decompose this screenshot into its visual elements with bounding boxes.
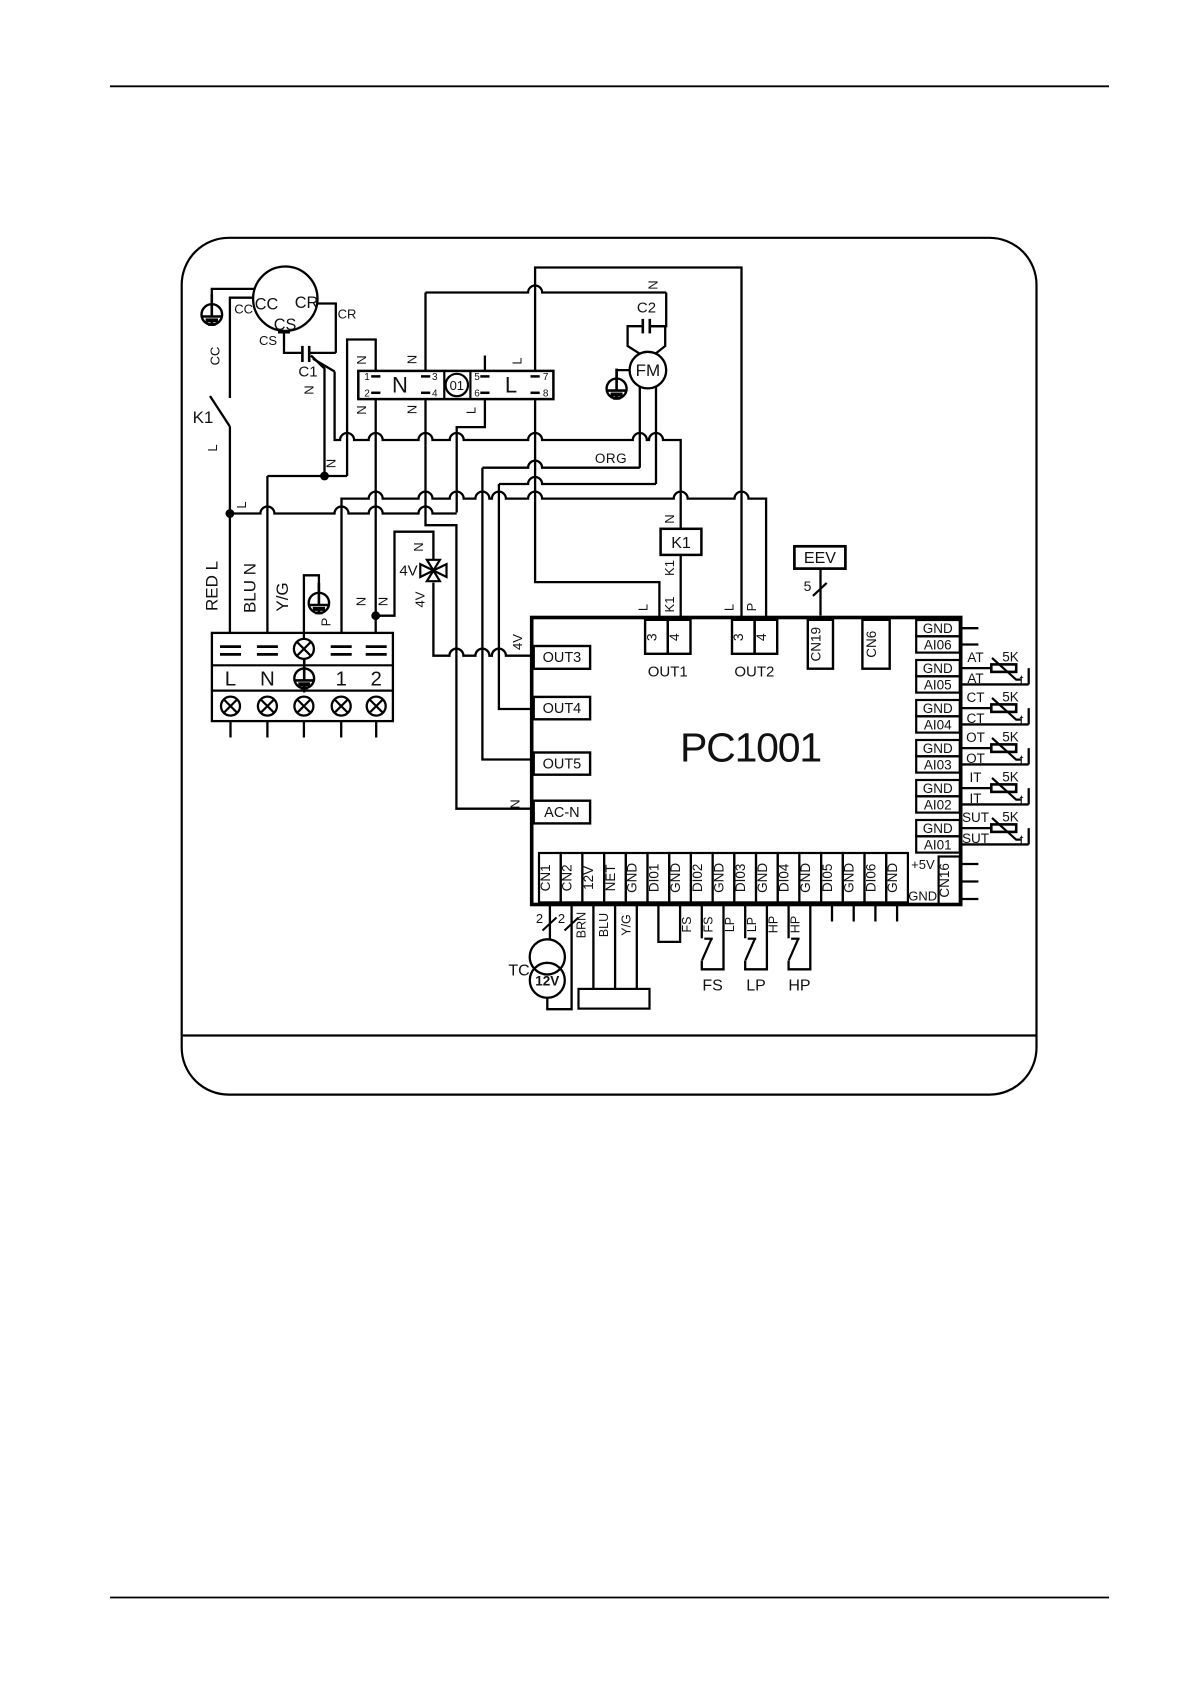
DI stub 4 <box>896 906 898 922</box>
svg-text:5: 5 <box>804 578 812 594</box>
svg-text:4V: 4V <box>510 634 525 650</box>
svg-text:OUT2: OUT2 <box>734 664 774 681</box>
svg-text:01: 01 <box>450 378 464 393</box>
ground symbol P (protective earth) <box>309 583 329 613</box>
svg-text:GND: GND <box>923 621 953 636</box>
svg-text:PC1001: PC1001 <box>680 725 821 771</box>
svg-text:2: 2 <box>364 389 370 400</box>
svg-text:LP: LP <box>723 917 737 932</box>
connector OUT4 box <box>534 697 590 719</box>
svg-text:N: N <box>354 597 369 606</box>
strip pin 6 tick and number <box>480 392 489 395</box>
svg-text:HP: HP <box>788 978 810 995</box>
svg-text:L: L <box>721 604 736 611</box>
svg-text:OUT3: OUT3 <box>543 650 582 666</box>
svg-text:BLU N: BLU N <box>241 563 260 613</box>
svg-text:L: L <box>636 604 651 611</box>
svg-text:1: 1 <box>364 372 370 383</box>
svg-text:N: N <box>354 355 369 364</box>
svg-text:3: 3 <box>432 372 438 383</box>
CN2 2-wire slash <box>565 918 579 931</box>
svg-text:IT: IT <box>970 791 982 806</box>
svg-text:HP: HP <box>767 916 781 933</box>
svg-text:N: N <box>508 799 523 808</box>
connector DI02 box (bottom row 8) <box>691 853 713 902</box>
svg-text:5K: 5K <box>1002 730 1019 745</box>
svg-text:K1: K1 <box>662 560 677 576</box>
svg-text:t: t <box>1020 713 1024 728</box>
svg-text:3: 3 <box>643 633 659 641</box>
svg-text:L: L <box>225 668 236 691</box>
wire pin1 loop to N net <box>347 340 376 477</box>
strip pin 3 tick and number <box>421 375 430 378</box>
wire jog to 4V valve <box>376 532 434 616</box>
svg-text:AI04: AI04 <box>924 717 952 732</box>
svg-text:8: 8 <box>543 389 549 400</box>
svg-text:OT: OT <box>966 730 985 745</box>
svg-text:P: P <box>319 618 334 627</box>
svg-text:1: 1 <box>335 668 346 691</box>
EEV box <box>794 546 845 568</box>
ground symbol G1 (compressor) <box>202 294 223 325</box>
wire L node to terminal L <box>229 514 231 633</box>
svg-text:AC-N: AC-N <box>544 805 579 821</box>
strip pin 8 tick and number <box>531 392 540 395</box>
DI01 jumper loop <box>658 906 680 942</box>
terminal block stub 2 <box>266 721 268 737</box>
svg-text:L: L <box>205 444 220 451</box>
svg-text:CS: CS <box>259 333 277 348</box>
wire CN2 to transformer return <box>547 906 571 1010</box>
junction dot L node <box>226 509 235 518</box>
terminal block screw 4 <box>332 697 351 716</box>
svg-text:4: 4 <box>753 633 769 641</box>
wire 12V (BRN) <box>592 906 594 989</box>
transformer TC secondary <box>530 963 565 998</box>
terminal GND box (pair 1) <box>916 620 960 636</box>
svg-text:EEV: EEV <box>804 550 836 567</box>
L bus from K1 <box>230 507 457 514</box>
page bottom rule <box>110 1597 1109 1599</box>
terminal GND box (pair 3) <box>916 700 960 716</box>
4-way valve 4V <box>420 560 446 581</box>
svg-text:AI02: AI02 <box>924 797 952 812</box>
terminal block fuse marks col2 <box>257 645 278 648</box>
N bus (horizontal with hops) to K1 coil <box>335 372 681 529</box>
terminal GND box (pair 6) <box>916 820 960 836</box>
svg-text:GND: GND <box>923 701 953 716</box>
DI stub 1 <box>831 906 833 922</box>
svg-text:AT: AT <box>967 650 983 665</box>
svg-text:N: N <box>405 355 420 364</box>
svg-text:DI01: DI01 <box>646 864 661 893</box>
connector 12V box (bottom row 3) <box>582 853 604 902</box>
svg-text:CC: CC <box>234 302 253 317</box>
wire FM right lead <box>655 386 657 485</box>
diagram frame (rounded rect) <box>182 238 1037 1095</box>
run FM right lead to OUT4 <box>499 477 656 709</box>
terminal AI01 box <box>916 836 960 852</box>
svg-text:AI01: AI01 <box>924 837 952 852</box>
svg-text:4V: 4V <box>399 563 417 580</box>
svg-text:K1: K1 <box>671 535 691 552</box>
svg-text:DI05: DI05 <box>820 864 835 893</box>
svg-text:5K: 5K <box>1002 650 1019 665</box>
svg-text:2: 2 <box>536 911 543 926</box>
svg-text:FS: FS <box>702 978 722 995</box>
svg-text:4V: 4V <box>413 591 428 607</box>
terminal block body <box>212 633 393 721</box>
CN16 stub 1 <box>962 863 979 865</box>
svg-text:BRN: BRN <box>575 912 589 938</box>
svg-text:DI03: DI03 <box>733 864 748 893</box>
connector GND box (bottom row 15) <box>843 853 865 902</box>
svg-text:AI06: AI06 <box>924 637 952 652</box>
svg-text:12V: 12V <box>535 973 559 988</box>
thermistor SUT (5K NTC) <box>962 818 1029 845</box>
svg-text:4: 4 <box>432 389 438 400</box>
connector OUT3 box <box>534 646 590 669</box>
wire Y/G to PE <box>304 575 319 633</box>
wire pin4 to AC-N <box>426 399 532 809</box>
svg-text:2: 2 <box>558 911 565 926</box>
wire pin7 to OUT2-3 (top run) <box>535 268 741 617</box>
svg-text:OUT1: OUT1 <box>648 664 688 681</box>
svg-text:N: N <box>376 597 391 606</box>
svg-text:GND: GND <box>842 863 857 893</box>
connector GND box (bottom row 9) <box>713 853 735 902</box>
cable sheath bar <box>579 989 650 1009</box>
svg-text:5K: 5K <box>1002 690 1019 705</box>
terminal block PE symbol <box>294 659 314 689</box>
svg-text:GND: GND <box>798 863 813 893</box>
svg-text:N: N <box>392 373 408 398</box>
strip pin 5 tick and number <box>480 375 489 378</box>
terminal block stub 3 <box>303 721 305 737</box>
high pressure switch HP <box>789 906 811 970</box>
svg-text:AT: AT <box>967 671 983 686</box>
compressor CS terminal tick <box>278 331 290 333</box>
svg-text:GND: GND <box>923 741 953 756</box>
svg-text:N: N <box>662 514 677 523</box>
terminal strip divider right <box>469 371 471 399</box>
thermistor CT (5K NTC) <box>962 698 1029 725</box>
connector DI03 box (bottom row 10) <box>734 853 756 902</box>
wire pin3 up to C2 net <box>426 286 667 293</box>
wire CC terminal down-left <box>230 298 253 398</box>
svg-text:2: 2 <box>370 668 381 691</box>
svg-text:CN6: CN6 <box>864 631 879 658</box>
connector DI05 box (bottom row 14) <box>821 853 843 902</box>
ground symbol G2 (fan motor) <box>607 369 627 399</box>
terminal block row divider 2 <box>212 689 393 691</box>
frame footer line <box>183 1034 1036 1036</box>
low pressure switch LP <box>745 906 767 970</box>
svg-text:GND: GND <box>625 863 640 893</box>
svg-text:DI06: DI06 <box>863 864 878 893</box>
svg-text:ORG: ORG <box>595 451 627 466</box>
connector OUT1 pin4 box <box>668 620 691 654</box>
DI stub 3 <box>874 906 876 922</box>
svg-text:N: N <box>302 385 317 394</box>
svg-text:L: L <box>234 501 249 508</box>
wire NET (BLU) <box>614 906 616 989</box>
terminal strip body <box>358 371 553 399</box>
wire EEV to CN19 <box>819 569 821 616</box>
svg-text:N: N <box>354 405 369 414</box>
svg-text:5: 5 <box>474 372 480 383</box>
relay coil K1 box <box>661 529 702 555</box>
junction dot terminal 2 node <box>371 611 380 620</box>
wire GND (Y/G) <box>636 906 638 989</box>
svg-text:GND: GND <box>885 863 900 893</box>
svg-text:GND: GND <box>923 661 953 676</box>
compressor motor M1 (CC/CR/CS) <box>253 267 317 331</box>
svg-text:CN1: CN1 <box>538 864 553 891</box>
ORG run FM to OUT5 <box>482 461 639 760</box>
svg-text:CN2: CN2 <box>560 864 575 891</box>
connector OUT1 pin3 box <box>645 620 668 654</box>
svg-text:12V: 12V <box>581 866 596 890</box>
wire CN1 to transformer <box>549 906 551 940</box>
svg-text:L: L <box>464 407 479 414</box>
connector NET box (bottom row 4) <box>604 853 626 902</box>
svg-text:t: t <box>1020 793 1024 808</box>
svg-text:3: 3 <box>730 633 746 641</box>
4V run valve to OUT3 <box>433 583 531 656</box>
wire CS to C1 <box>284 332 301 353</box>
svg-text:C1: C1 <box>298 364 317 381</box>
wire K1 coil to OUT1-4 <box>680 555 682 616</box>
svg-text:L: L <box>510 357 525 364</box>
svg-text:SUT: SUT <box>962 810 989 825</box>
stub AI06 <box>962 643 979 645</box>
FM winding left funnel <box>628 326 642 353</box>
svg-text:P: P <box>744 603 759 612</box>
svg-text:LP: LP <box>746 978 766 995</box>
svg-text:CC: CC <box>208 347 223 366</box>
svg-text:GND: GND <box>712 863 727 893</box>
svg-text:IT: IT <box>970 770 982 785</box>
svg-text:Y/G: Y/G <box>273 582 292 611</box>
svg-text:GND: GND <box>668 863 683 893</box>
svg-text:CR: CR <box>338 306 357 321</box>
terminal block fuse marks col5 <box>366 645 387 648</box>
CN16 stub 3 <box>962 898 979 900</box>
svg-text:5K: 5K <box>1002 770 1019 785</box>
svg-text:7: 7 <box>543 372 549 383</box>
svg-text:+5V: +5V <box>911 857 935 872</box>
svg-text:BLU: BLU <box>597 913 611 937</box>
terminal block screw 3 <box>294 697 313 716</box>
strip pin 2 tick and number <box>371 392 380 395</box>
wire C2 net drop <box>651 293 667 327</box>
svg-text:5K: 5K <box>1002 810 1019 825</box>
DI stub 2 <box>853 906 855 922</box>
connector GND box (bottom row 13) <box>799 853 821 902</box>
terminal block stub 1 <box>229 721 231 737</box>
terminal AI06 box <box>916 636 960 652</box>
svg-text:AI05: AI05 <box>924 677 952 692</box>
capacitor C1 plates <box>301 346 304 362</box>
svg-text:6: 6 <box>474 389 480 400</box>
P bus terminal1 to OUT2-4 <box>342 492 767 633</box>
fan motor FM <box>630 352 667 389</box>
connector CN19 box <box>808 620 833 669</box>
svg-text:t: t <box>1020 833 1024 848</box>
wire pin3 riser <box>424 293 426 371</box>
svg-text:GND: GND <box>908 889 937 904</box>
FM winding right funnel <box>651 326 665 353</box>
svg-text:GND: GND <box>755 863 770 893</box>
controller board PC1001 outline <box>532 618 961 905</box>
terminal block screw 1 <box>221 697 240 716</box>
svg-text:N: N <box>646 280 661 289</box>
terminal AI04 box <box>916 716 960 732</box>
terminal strip divider left <box>443 371 445 399</box>
svg-text:NET: NET <box>603 864 618 891</box>
transformer TC primary <box>530 939 565 974</box>
svg-text:FM: FM <box>636 361 661 380</box>
wire C1 to CR node <box>310 352 336 354</box>
svg-text:OT: OT <box>966 751 985 766</box>
terminal block row divider 1 <box>212 664 393 666</box>
switch K1 blade <box>210 396 230 426</box>
terminal GND box (pair 4) <box>916 740 960 756</box>
wire pin6 to L bus <box>457 399 485 512</box>
connector OUT2 pin3 box <box>732 620 755 654</box>
svg-text:t: t <box>1020 753 1024 768</box>
terminal block fuse marks col4 <box>331 645 352 648</box>
terminal block stub 4 <box>340 721 342 737</box>
connector GND box (bottom row 7) <box>669 853 691 902</box>
svg-text:SUT: SUT <box>962 831 989 846</box>
wire FM left lead (ORG) <box>639 387 641 468</box>
svg-text:DI02: DI02 <box>690 864 705 893</box>
svg-text:LP: LP <box>745 917 759 932</box>
connector GND box (bottom row 17) <box>886 853 908 902</box>
terminal block screw 2 <box>258 697 277 716</box>
svg-text:GND: GND <box>923 781 953 796</box>
terminal block stub 5 <box>375 721 377 737</box>
connector DI01 box (bottom row 6) <box>648 853 670 902</box>
thermistor AT (5K NTC) <box>962 658 1029 685</box>
thermistor OT (5K NTC) <box>962 738 1029 765</box>
connector CN1 box (bottom row 1) <box>539 853 561 902</box>
connector OUT2 pin4 box <box>755 620 778 654</box>
thermistor IT (5K NTC) <box>962 778 1029 805</box>
wire pin8 to OUT1-3 <box>535 399 659 616</box>
connector GND box (bottom row 5) <box>626 853 648 902</box>
terminal block lamp col3 <box>294 639 314 659</box>
svg-text:L: L <box>505 373 517 398</box>
terminal block fuse marks col1 <box>220 645 241 648</box>
connector DI06 box (bottom row 16) <box>865 853 887 902</box>
terminal AI02 box <box>916 796 960 812</box>
CN16 stub 2 <box>962 880 979 882</box>
svg-text:N: N <box>324 459 339 468</box>
wire FM to ground <box>617 370 630 379</box>
svg-text:Y/G: Y/G <box>620 914 634 936</box>
svg-text:HP: HP <box>788 916 802 933</box>
strip pin 7 tick and number <box>531 375 540 378</box>
svg-text:CC: CC <box>255 296 279 314</box>
connector OUT5 box <box>534 753 590 775</box>
terminal AI03 box <box>916 756 960 772</box>
N net horizontal <box>267 475 347 477</box>
svg-text:CN19: CN19 <box>808 627 823 662</box>
junction dot N net <box>320 472 329 481</box>
svg-text:N: N <box>260 668 275 691</box>
svg-text:FS: FS <box>680 917 694 933</box>
strip pin 1 tick and number <box>371 375 380 378</box>
strip pin 4 tick and number <box>421 392 430 395</box>
svg-text:N: N <box>411 542 426 551</box>
svg-text:t: t <box>1020 673 1024 688</box>
svg-text:GND: GND <box>923 821 953 836</box>
wire compressor case to ground <box>212 289 255 305</box>
svg-text:AI03: AI03 <box>924 757 952 772</box>
terminal strip indicator lamp 01 <box>446 374 468 396</box>
capacitor C2 plates <box>641 319 644 334</box>
svg-text:CT: CT <box>967 711 985 726</box>
svg-text:OUT5: OUT5 <box>543 756 582 772</box>
wire pin2 down to terminal 2 <box>375 399 377 633</box>
svg-text:FS: FS <box>702 917 716 933</box>
svg-text:4: 4 <box>666 633 682 641</box>
strip pin 5 stub <box>484 356 486 371</box>
svg-text:CN16: CN16 <box>937 863 952 898</box>
svg-text:TC: TC <box>508 963 529 980</box>
svg-text:CR: CR <box>295 294 319 312</box>
CN1 2-wire slash <box>543 918 557 931</box>
flow switch FS <box>702 906 724 970</box>
svg-text:K1: K1 <box>193 408 214 427</box>
wire N net to terminal N <box>266 476 268 633</box>
svg-text:K1: K1 <box>662 597 677 613</box>
connector DI04 box (bottom row 12) <box>778 853 800 902</box>
terminal block screw 5 <box>367 697 386 716</box>
svg-text:N: N <box>405 405 420 414</box>
connector CN2 box (bottom row 2) <box>561 853 583 902</box>
stub GND (CN15) <box>962 627 979 629</box>
wire CR terminal down <box>317 304 336 353</box>
wire C1 node diagonal to N bus <box>313 359 335 372</box>
terminal AI05 box <box>916 676 960 692</box>
svg-text:C2: C2 <box>637 300 656 317</box>
wire K1 to L node <box>229 426 231 513</box>
svg-text:RED L: RED L <box>203 561 222 611</box>
EEV 5-wire slash <box>813 583 827 596</box>
page top rule <box>110 85 1109 87</box>
terminal GND box (pair 5) <box>916 780 960 796</box>
svg-text:DI04: DI04 <box>777 863 792 892</box>
connector GND box (bottom row 11) <box>756 853 778 902</box>
svg-text:CT: CT <box>967 690 985 705</box>
terminal GND box (pair 2) <box>916 660 960 676</box>
connector AC-N box <box>534 801 590 824</box>
connector CN6 box <box>862 620 889 669</box>
connector CN16 box <box>939 857 960 905</box>
svg-text:OUT4: OUT4 <box>543 701 582 717</box>
wire C1 node diagonal to N junction <box>311 356 325 477</box>
